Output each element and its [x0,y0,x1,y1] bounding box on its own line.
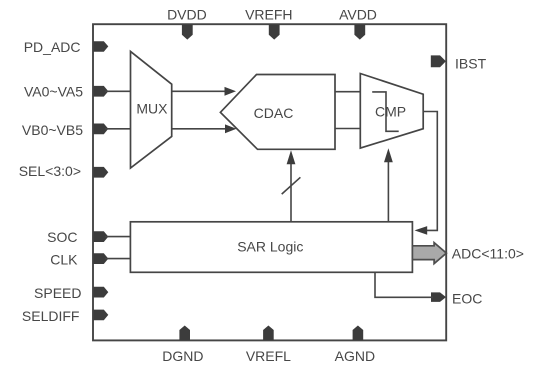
pin SEL<3:0> (left) [19,163,109,179]
CDAC block [220,75,335,150]
bus slash on SAR-to-CDAC wire [282,177,301,194]
svg-text:SPEED: SPEED [34,285,81,301]
wire VB0~VB5 to MUX [105,128,131,130]
svg-text:SELDIFF: SELDIFF [22,308,80,324]
MUX block [131,51,172,168]
ADC<11:0> output bus arrow (gray block arrow) [412,243,524,264]
pin EOC (right) [431,290,482,306]
wire SOC to SAR Logic [105,236,130,238]
wire SAR Logic to CMP (vertical, arrowhead up) [384,148,393,222]
pin SOC (left) [47,229,108,245]
wire VA0~VA5 to MUX [105,90,131,92]
svg-text:SEL<3:0>: SEL<3:0> [19,163,81,179]
wire SAR Logic to CDAC (vertical, arrowhead up) [287,150,296,222]
wire MUX to CDAC (top, with arrowhead) [172,87,236,96]
pin AGND (bottom) [335,326,375,365]
pin SELDIFF (left) [22,308,108,324]
svg-text:CDAC: CDAC [254,105,294,121]
svg-text:CMP: CMP [375,104,406,120]
pin SPEED (left) [34,285,108,301]
svg-text:VA0~VA5: VA0~VA5 [24,84,83,100]
wire CDAC to CMP (top) [335,91,360,93]
wire SAR Logic to EOC pin [375,272,433,297]
svg-text:VB0~VB5: VB0~VB5 [22,122,83,138]
pin PD_ADC (left) [24,39,109,55]
svg-text:CLK: CLK [50,252,78,268]
wire CMP output feedback to SAR Logic (right, down, left with arrowhead) [415,112,438,235]
pin IBST (right) [431,55,487,71]
svg-text:SAR Logic: SAR Logic [237,239,303,255]
svg-text:DGND: DGND [162,348,203,364]
pin VREFH (top) [245,7,292,40]
svg-text:AGND: AGND [335,348,375,364]
svg-text:EOC: EOC [452,290,482,306]
pin VREFL (bottom) [246,326,291,365]
svg-text:VREFL: VREFL [246,348,291,364]
SAR Logic block [130,222,412,272]
ADC top-level block border [93,24,446,340]
wire CDAC to CMP (bottom) [335,128,360,130]
wire CLK to SAR Logic [105,258,130,260]
pin VA0~VA5 (left) [24,84,108,100]
CMP block [360,74,423,149]
svg-text:SOC: SOC [47,229,77,245]
wire MUX to CDAC (bottom, with arrowhead) [172,124,237,133]
svg-text:IBST: IBST [455,55,487,71]
svg-text:MUX: MUX [136,101,168,117]
pin VB0~VB5 (left) [22,122,108,138]
svg-text:PD_ADC: PD_ADC [24,39,81,55]
svg-text:ADC<11:0>: ADC<11:0> [452,245,524,261]
pin DGND (bottom) [162,326,203,365]
pin DVDD (top) [167,7,207,40]
pin CLK (left) [50,252,108,268]
svg-text:AVDD: AVDD [339,7,377,23]
pin AVDD (top) [339,7,377,40]
svg-text:VREFH: VREFH [245,7,292,23]
svg-text:DVDD: DVDD [167,7,207,23]
